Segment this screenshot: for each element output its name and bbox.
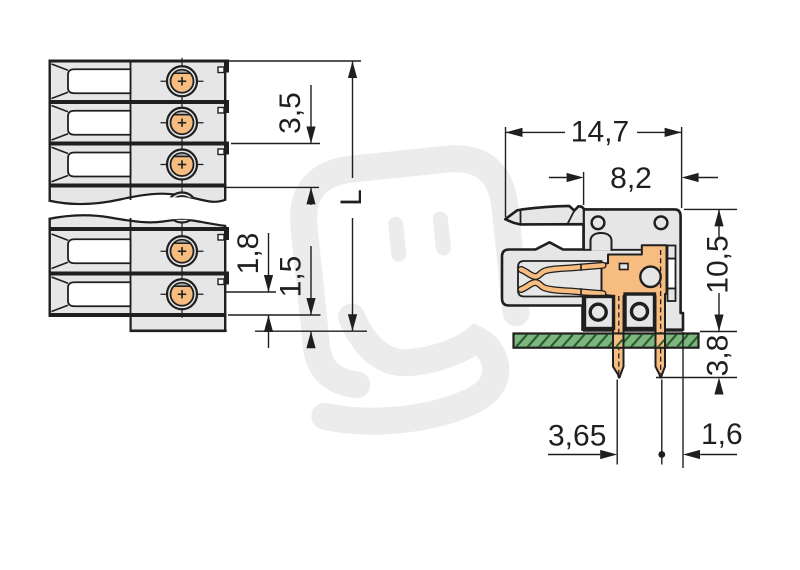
svg-text:L: L <box>335 189 368 206</box>
svg-text:3,5: 3,5 <box>274 92 307 134</box>
svg-text:3,8: 3,8 <box>702 335 735 377</box>
svg-text:3,65: 3,65 <box>548 420 606 453</box>
svg-text:10,5: 10,5 <box>702 235 735 293</box>
svg-text:8,2: 8,2 <box>610 162 652 195</box>
svg-text:1,6: 1,6 <box>701 418 743 451</box>
svg-text:14,7: 14,7 <box>571 116 629 149</box>
svg-text:1,5: 1,5 <box>275 256 308 298</box>
svg-text:1,8: 1,8 <box>232 233 265 275</box>
